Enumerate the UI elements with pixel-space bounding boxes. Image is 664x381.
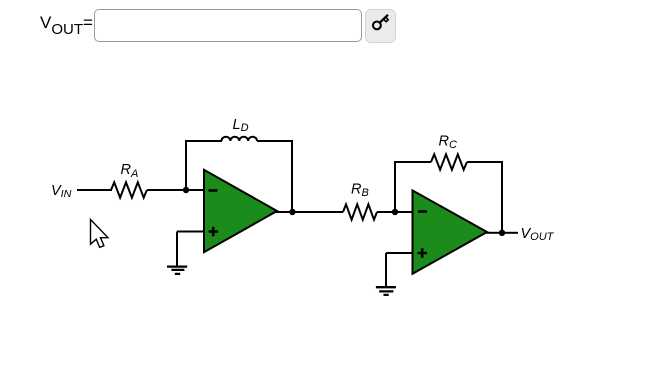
wire node D to Vout [502, 232, 518, 234]
svg-text:VIN: VIN [51, 183, 72, 200]
node B junction dot [289, 209, 295, 215]
wire feedback top right [257, 140, 293, 142]
wire U2 plus input [386, 252, 413, 254]
wire node B to RB [292, 211, 343, 213]
wire U2 output to node D [486, 232, 502, 234]
node C junction dot [392, 209, 398, 215]
U1 inverting pin minus [209, 189, 218, 192]
resistor RB [343, 204, 377, 219]
wire RC feedback top right [467, 161, 503, 163]
U1 non-inverting pin plus [209, 227, 219, 237]
wire down to ground 2 [385, 253, 387, 288]
label RC [439, 134, 457, 152]
wire RB to node C [377, 211, 413, 213]
wire RC feedback top left [394, 161, 431, 163]
answer label Vout= [40, 13, 93, 33]
inductor LD [222, 137, 258, 141]
wire down to ground 1 [176, 232, 178, 267]
resistor RA [111, 182, 147, 197]
op-amp U2 [413, 190, 488, 273]
wire feedback top left [185, 140, 222, 142]
ground 2 [376, 287, 396, 295]
node A junction dot [183, 187, 189, 193]
ground 1 [167, 267, 187, 274]
wire Vin to RA [77, 189, 112, 191]
mouse cursor [91, 220, 109, 248]
label RB [351, 182, 369, 200]
svg-text:VOUT: VOUT [521, 226, 555, 243]
wire node A up to feedback [185, 140, 187, 190]
wire RA to node A [147, 189, 204, 191]
resistor RC [431, 154, 467, 169]
answer input field [94, 9, 362, 42]
svg-text:RB: RB [351, 182, 369, 200]
wire node C up to RC feedback [394, 161, 396, 212]
wire U1 plus input [177, 231, 204, 233]
svg-text:RA: RA [121, 162, 139, 180]
node Vin label [51, 183, 72, 200]
wire feedback down to output node D [501, 161, 503, 233]
U2 inverting pin minus [418, 210, 427, 213]
U2 non-inverting pin plus [418, 248, 428, 258]
op-amp U1 [204, 170, 277, 252]
key button [365, 9, 396, 43]
svg-text:RC: RC [439, 134, 457, 152]
wire feedback down to output node B [291, 140, 293, 212]
wire U1 output to node B [276, 211, 293, 213]
label LD [233, 117, 249, 134]
node Vout label [521, 226, 555, 243]
node D junction dot [499, 230, 505, 236]
svg-text:LD: LD [233, 117, 249, 134]
label RA [121, 162, 139, 180]
